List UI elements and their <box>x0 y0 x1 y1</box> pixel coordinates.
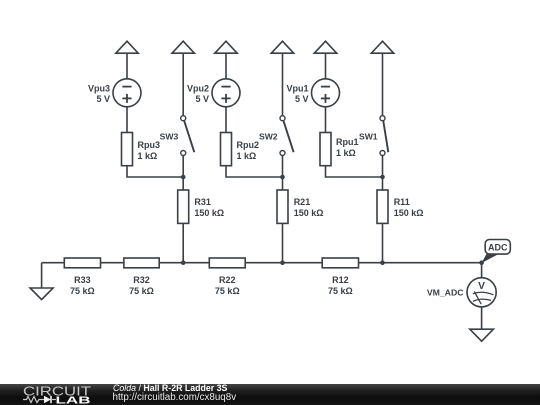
svg-text:5 V: 5 V <box>96 94 110 104</box>
switch SW3 <box>181 116 186 121</box>
resistor R32 <box>124 258 159 268</box>
footer title <box>113 383 227 393</box>
voltage source Vpu2 <box>212 79 240 107</box>
wire R21 to ladder <box>282 223 284 262</box>
wire Rpu1 to SW1 node <box>326 166 383 177</box>
wire R11 to ladder <box>382 223 384 262</box>
voltage source Vpu3 <box>113 79 141 107</box>
net flag 1 (Vpu3 column) <box>116 41 138 53</box>
svg-text:V: V <box>478 281 485 292</box>
wire flag6 to SW1 <box>382 53 384 115</box>
svg-text:5 V: 5 V <box>295 94 309 104</box>
svg-text:R33: R33 <box>74 275 91 285</box>
voltmeter VM_ADC <box>467 278 496 307</box>
wire SW2 to R21 <box>282 156 284 190</box>
svg-text:75 kΩ: 75 kΩ <box>215 286 240 296</box>
svg-text:150 kΩ: 150 kΩ <box>394 208 424 218</box>
svg-text:Vpu1: Vpu1 <box>286 83 308 93</box>
footer url <box>113 392 237 403</box>
wire SW3 to R31 <box>182 156 184 190</box>
wire flag1 to Vpu3 <box>126 53 128 78</box>
wire flag2 to SW3 <box>182 53 184 115</box>
node ladder/R31 <box>181 260 186 265</box>
resistor R21 <box>277 190 288 223</box>
svg-text:1 kΩ: 1 kΩ <box>237 151 257 161</box>
switch SW2 <box>280 116 285 121</box>
switch SW1 <box>380 116 385 121</box>
svg-text:R31: R31 <box>194 197 211 207</box>
svg-text:1 kΩ: 1 kΩ <box>336 148 356 158</box>
svg-text:R22: R22 <box>219 275 236 285</box>
resistor R11 <box>377 190 388 223</box>
svg-text:Rpu2: Rpu2 <box>237 140 260 150</box>
node ladder/R21 <box>280 260 285 265</box>
svg-text:SW2: SW2 <box>259 132 278 142</box>
svg-text:Rpu1: Rpu1 <box>336 137 359 147</box>
node SW3/Rpu3/R31 junction <box>181 175 186 180</box>
wire flag3 to Vpu2 <box>225 53 227 78</box>
svg-text:R32: R32 <box>133 275 150 285</box>
wire Vpu1 to Rpu1 <box>325 107 327 132</box>
wire Rpu3 to SW3 node <box>127 166 183 177</box>
wire R31 to ladder <box>182 223 184 262</box>
node SW1/Rpu1/R11 junction <box>380 175 385 180</box>
resistor R22 <box>209 258 245 268</box>
net flag 4 (SW2 column) <box>271 41 293 53</box>
wire node to voltmeter <box>481 263 483 278</box>
svg-text:SW1: SW1 <box>359 132 378 142</box>
svg-text:ADC: ADC <box>488 242 508 252</box>
net flag 2 (SW3 column) <box>172 41 194 53</box>
resistor R31 <box>178 190 189 223</box>
resistor R33 <box>64 258 100 268</box>
wire ladder horizontal <box>42 262 482 264</box>
svg-text:R11: R11 <box>394 197 410 207</box>
svg-text:Vpu2: Vpu2 <box>187 83 209 93</box>
resistor R12 <box>322 258 358 268</box>
net label ADC box <box>485 240 510 255</box>
node SW2/Rpu2/R21 junction <box>280 175 285 180</box>
svg-text:LAB: LAB <box>56 396 91 405</box>
ground right <box>470 329 494 341</box>
svg-text:1 kΩ: 1 kΩ <box>138 151 158 161</box>
net label ADC flag tail <box>482 254 499 263</box>
svg-text:5 V: 5 V <box>195 94 209 104</box>
net flag 6 (SW1 column) <box>371 41 393 53</box>
resistor Rpu3 <box>122 133 133 166</box>
svg-text:75 kΩ: 75 kΩ <box>70 286 95 296</box>
net flag 5 (Vpu1 column) <box>314 41 336 53</box>
resistor Rpu1 <box>320 133 331 166</box>
svg-text:150 kΩ: 150 kΩ <box>294 208 324 218</box>
svg-text:SW3: SW3 <box>160 132 179 142</box>
footer bar <box>0 384 540 405</box>
wire Rpu2 to SW2 node <box>226 166 283 177</box>
wire Vpu2 to Rpu2 <box>225 107 227 132</box>
wire SW1 to R11 <box>382 156 384 190</box>
wire flag5 to Vpu1 <box>325 53 327 78</box>
wire flag4 to SW2 <box>282 53 284 115</box>
svg-text:R21: R21 <box>294 197 311 207</box>
resistor Rpu2 <box>221 133 232 166</box>
svg-text:150 kΩ: 150 kΩ <box>194 208 224 218</box>
wire Vpu3 to Rpu3 <box>126 107 128 132</box>
svg-text:VM_ADC: VM_ADC <box>427 288 464 298</box>
node ladder/R11 <box>380 260 385 265</box>
voltage source Vpu1 <box>312 79 340 107</box>
wire voltmeter to ground <box>481 307 483 329</box>
ground left <box>30 288 53 300</box>
svg-text:R12: R12 <box>332 275 349 285</box>
svg-text:75 kΩ: 75 kΩ <box>328 286 353 296</box>
wire ladder to left ground <box>41 263 43 288</box>
net flag 3 (Vpu2 column) <box>215 41 237 53</box>
node ADC output <box>479 260 484 265</box>
CircuitLab logo <box>20 385 98 405</box>
svg-text:75 kΩ: 75 kΩ <box>129 286 154 296</box>
svg-text:Vpu3: Vpu3 <box>88 83 110 93</box>
svg-text:Rpu3: Rpu3 <box>138 140 161 150</box>
